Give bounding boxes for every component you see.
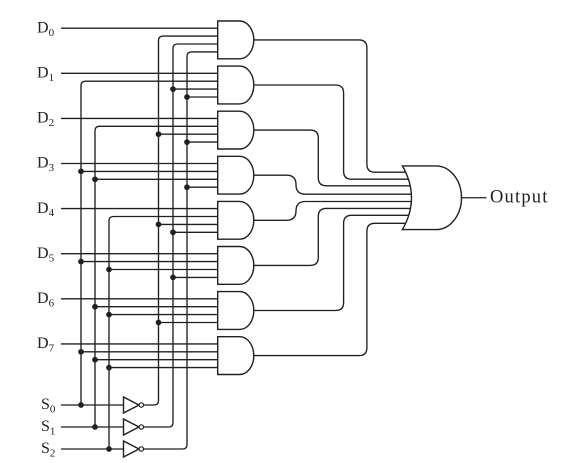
inverter U3 (S2) — [124, 441, 140, 457]
junction S2-bar to A2 — [184, 94, 190, 100]
wire S0-bar tap to AND gate A5 — [159, 223, 218, 225]
wire S1 tap to AND gate A7 — [95, 306, 218, 308]
AND gate A6 (D5 term) — [218, 247, 254, 285]
wire S2 tap to AND gate A7 — [109, 314, 218, 316]
wire D3 input line — [61, 163, 218, 165]
svg-text:D7: D7 — [37, 335, 55, 354]
AND gate A8 (D7 term) — [218, 337, 254, 375]
svg-text:D5: D5 — [37, 245, 55, 264]
inverter U2 (S1) bubble — [139, 425, 143, 429]
junction S2 to A7 — [106, 312, 112, 318]
svg-text:S2: S2 — [41, 440, 55, 459]
svg-text:D2: D2 — [37, 110, 54, 129]
wire S1-bar tap to AND gate A6 — [173, 276, 218, 278]
wire S1 vertical bus (true) — [95, 126, 218, 427]
inverter U1 (S0) — [124, 397, 140, 413]
svg-text:S1: S1 — [41, 418, 55, 437]
wire D1 input line — [61, 72, 218, 74]
AND gate A1 (D0 term) — [218, 21, 254, 59]
junction S2 line tap — [106, 446, 112, 452]
wire AND gate A4 output to OR gate U4 input 4 — [254, 175, 413, 194]
wire AND gate A5 output to OR gate U4 input 5 — [254, 202, 413, 221]
svg-text:D4: D4 — [37, 200, 55, 219]
AND gate A3 (D2 term) — [218, 111, 254, 149]
wire S2-bar vertical bus from inverter U3 — [144, 52, 218, 449]
svg-text:D0: D0 — [37, 19, 55, 38]
svg-text:D3: D3 — [37, 155, 55, 174]
junction S0 to A8 — [78, 349, 84, 355]
AND gate A7 (D6 term) — [218, 292, 254, 330]
wire Output — [461, 197, 487, 199]
junction S1 to A4 — [92, 176, 98, 182]
wire D4 input line — [61, 208, 218, 210]
wire AND gate A1 output to OR gate U4 input 1 — [254, 40, 413, 172]
junction S0-bar to A3 — [156, 131, 162, 137]
wire D7 input line — [61, 343, 218, 345]
wire S0 vertical bus (true) — [81, 81, 218, 405]
wire S2 tap to AND gate A8 — [109, 367, 218, 369]
wire S0 tap to AND gate A4 — [81, 170, 218, 172]
wire S2 tap to AND gate A6 — [109, 269, 218, 271]
svg-text:S0: S0 — [41, 396, 56, 415]
junction S1-bar to A2 — [170, 86, 176, 92]
wire S1 tap to AND gate A4 — [95, 178, 218, 180]
junction S1 line tap — [92, 424, 98, 430]
wire D2 input line — [61, 117, 218, 119]
wire S2 input line — [61, 448, 124, 450]
svg-text:Output: Output — [490, 188, 549, 208]
wire S0 input line — [61, 404, 124, 406]
wire S1-bar vertical bus from inverter U2 — [144, 44, 218, 427]
svg-text:D1: D1 — [37, 65, 54, 84]
wire AND gate A6 output to OR gate U4 input 6 — [254, 208, 413, 265]
junction S2 to A8 — [106, 365, 112, 371]
wire AND gate A2 output to OR gate U4 input 2 — [254, 85, 413, 179]
wire AND gate A8 output to OR gate U4 input 8 — [254, 223, 413, 355]
inverter U2 (S1) — [124, 419, 140, 435]
wire S2-bar tap to AND gate A2 — [187, 96, 218, 98]
wire S2-bar tap to AND gate A3 — [187, 141, 218, 143]
wire S0-bar vertical bus from inverter U1 — [144, 36, 218, 405]
svg-text:D6: D6 — [37, 290, 55, 309]
wire S0 tap to AND gate A6 — [81, 261, 218, 263]
AND gate A5 (D4 term) — [218, 201, 254, 239]
wire S2-bar tap to AND gate A4 — [187, 186, 218, 188]
wire S0 tap to AND gate A8 — [81, 351, 218, 353]
junction S0 line tap — [78, 402, 84, 408]
wire D0 input line — [61, 27, 218, 29]
wire S1-bar tap to AND gate A2 — [173, 88, 218, 90]
junction S2 to A6 — [106, 267, 112, 273]
junction S2-bar to A3 — [184, 139, 190, 145]
wire S1 tap to AND gate A8 — [95, 359, 218, 361]
wire D6 input line — [61, 298, 218, 300]
wire S1-bar tap to AND gate A5 — [173, 231, 218, 233]
inverter U1 (S0) bubble — [139, 403, 143, 407]
wire S0-bar tap to AND gate A3 — [159, 133, 218, 135]
wire D5 input line — [61, 253, 218, 255]
wire S1 input line — [61, 426, 124, 428]
junction S0 to A4 — [78, 169, 84, 175]
junction S0 to A6 — [78, 259, 84, 265]
AND gate A4 (D3 term) — [218, 156, 254, 194]
AND gate A2 (D1 term) — [218, 66, 254, 104]
junction S1 to A8 — [92, 357, 98, 363]
wire S0-bar tap to AND gate A7 — [159, 322, 218, 324]
junction S1 to A7 — [92, 304, 98, 310]
wire AND gate A7 output to OR gate U4 input 7 — [254, 215, 413, 310]
junction S0-bar to A5 — [156, 222, 162, 228]
junction S1-bar to A6 — [170, 275, 176, 281]
junction S1-bar to A5 — [170, 229, 176, 235]
OR gate U4 — [402, 166, 461, 230]
junction S2-bar to A4 — [184, 184, 190, 190]
inverter U3 (S2) bubble — [139, 447, 143, 451]
wire S2 vertical bus (true) — [109, 217, 218, 450]
wire AND gate A3 output to OR gate U4 input 3 — [254, 130, 413, 186]
junction S0-bar to A7 — [156, 320, 162, 326]
